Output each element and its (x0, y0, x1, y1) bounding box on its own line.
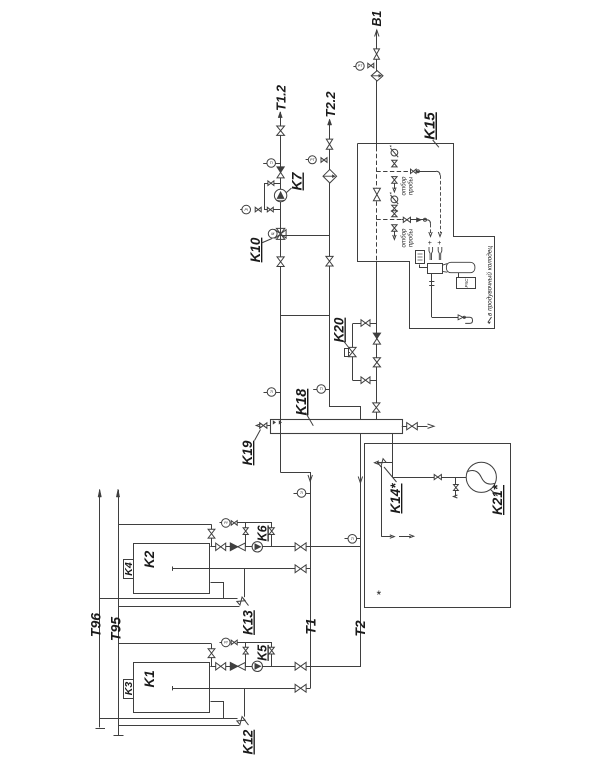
pipe K20 lower link (353, 380, 377, 382)
cooler feed 1 (440, 175, 442, 233)
cooler feed 2 (430, 224, 432, 233)
check valve B1 main (373, 333, 380, 339)
PI link (237, 642, 246, 644)
svg-text:K12: K12 (241, 729, 256, 754)
check valve above K7 (277, 167, 284, 173)
valve riser2 (326, 256, 333, 266)
enclosure hot water (365, 444, 511, 608)
flask bottle (446, 262, 475, 272)
mini valve PI (255, 207, 261, 212)
sampling branch 2 (376, 219, 401, 221)
safety valve K19 (267, 425, 270, 427)
pipe riser1 through manifold (280, 419, 282, 433)
mini valve sensor T2.2 (321, 158, 327, 163)
pipe make-up from T95 (118, 643, 212, 645)
collector outlet (402, 426, 428, 428)
valve B1 in K15 (373, 188, 380, 201)
PI mini valve (231, 521, 237, 526)
valve supply 2 (295, 543, 306, 551)
pipe T1 main (281, 473, 311, 689)
weld marks (273, 420, 276, 424)
thermometer TI above K7 (267, 159, 276, 168)
svg-text:пробы: пробы (408, 228, 415, 247)
svg-text:K14*: K14* (388, 483, 403, 514)
pump K5 (252, 661, 262, 671)
koloddec leader (488, 317, 492, 323)
flow orifice B1 (371, 71, 383, 81)
flow arrow T2 (358, 477, 362, 484)
РпС link (458, 273, 460, 278)
flow arrow T1 (308, 475, 312, 482)
sample1 spout (394, 183, 396, 189)
svg-text:TI: TI (320, 387, 323, 391)
drain spout K14 (381, 466, 383, 537)
control valve K20 (349, 347, 356, 356)
svg-text:T1.2: T1.2 (274, 84, 289, 111)
sensor tail (306, 159, 309, 161)
valve branch2 (403, 217, 410, 222)
valve sample2 mid (392, 211, 397, 217)
mini valve bypass bottom (267, 207, 273, 212)
svg-text:PI: PI (244, 208, 247, 212)
pipe supply K2 (210, 546, 360, 548)
drain branch (244, 688, 246, 716)
svg-text:PI: PI (224, 641, 227, 645)
pipe supply K1 (210, 666, 360, 668)
enclosure K15 (358, 144, 495, 329)
svg-text:M: M (271, 232, 274, 236)
mini valve sensor B1 (368, 63, 374, 68)
leader K20 (344, 341, 350, 349)
leader K12 (244, 719, 249, 726)
collector K18 (271, 420, 403, 434)
check valve supply (230, 543, 238, 551)
control unit link (420, 265, 428, 268)
cross link upper (281, 235, 330, 237)
sample point symbol 2 (391, 196, 398, 203)
svg-text:K20: K20 (332, 317, 347, 342)
svg-text:T2: T2 (352, 620, 368, 637)
valve bypass left (243, 528, 248, 535)
pipe K20 bypass (352, 324, 354, 381)
leader K7 (287, 188, 292, 193)
sensor tail (353, 66, 355, 68)
PI tail (220, 522, 222, 524)
svg-text:TI: TI (270, 390, 273, 394)
valve sample2 lower (392, 225, 397, 232)
svg-text:T95: T95 (108, 617, 124, 641)
valve K20 lower (361, 377, 370, 384)
svg-text:K19: K19 (240, 440, 255, 465)
handle branch1 (417, 170, 420, 173)
PI tail (240, 209, 242, 211)
valve bypass right (269, 647, 274, 654)
PI mini valve (231, 640, 237, 645)
svg-text:PT: PT (310, 158, 315, 162)
valve B1 main low (373, 403, 380, 412)
svg-text:K6: K6 (256, 524, 270, 541)
svg-text:K1: K1 (142, 670, 157, 687)
svg-text:отбор: отбор (401, 228, 408, 248)
boiler drain step (211, 583, 224, 599)
svg-text:K21*: K21* (490, 484, 505, 515)
svg-text:в продувочный колодец: в продувочный колодец (486, 246, 494, 316)
casing label box K3 (124, 680, 134, 699)
pipe T96 riser (96, 489, 106, 729)
valve bypass right (269, 528, 274, 535)
pump K7 bypass (265, 184, 281, 210)
svg-text:K3: K3 (123, 682, 135, 696)
arrow T1.2 (278, 112, 282, 118)
pipe return K1 (172, 688, 310, 690)
vent stub (211, 524, 213, 546)
control unit box (416, 251, 425, 264)
valve supply 1 (216, 663, 226, 670)
sensor at B1 (356, 62, 364, 70)
pipe sampling K14 (392, 443, 394, 477)
pipe riser inside manifold (280, 419, 282, 472)
pipe K20 upper link (353, 323, 377, 325)
valve return (295, 565, 306, 573)
svg-text:K15: K15 (422, 112, 439, 140)
valve K10 three-way (275, 230, 286, 238)
svg-text:K18: K18 (294, 388, 310, 416)
valve sample1 lower (392, 177, 397, 184)
valve on K21 line (434, 475, 441, 480)
pump K21 (466, 462, 496, 492)
svg-text:РпС: РпС (464, 278, 469, 288)
svg-text:K13: K13 (241, 610, 256, 635)
sample cooler flask neck (442, 264, 447, 273)
check valve supply (230, 662, 238, 670)
pipe to K21 (393, 477, 466, 479)
cross link lower (281, 315, 330, 317)
valve K20 upper (361, 320, 370, 327)
pump bypass (246, 643, 272, 667)
pipe riser to T1.2 (280, 112, 282, 419)
svg-text:K7: K7 (289, 171, 305, 190)
flow orifice riser2 (323, 169, 337, 183)
svg-text:K2: K2 (142, 550, 157, 568)
svg-text:B1: B1 (370, 10, 384, 26)
svg-text:PT: PT (358, 64, 363, 68)
arrow B1 (375, 30, 379, 37)
svg-text:+: + (437, 240, 441, 247)
mini valve bypass top (268, 181, 274, 186)
valve B1 main mid (373, 358, 380, 367)
svg-text:TI: TI (270, 161, 273, 165)
valve supply 2 (295, 662, 306, 670)
svg-text:TI: TI (351, 537, 354, 541)
leader K19 (255, 430, 261, 441)
leader K10 (262, 239, 273, 244)
pump bypass (246, 523, 272, 547)
valve return (295, 684, 306, 692)
svg-text:K4: K4 (123, 562, 135, 576)
thermometer TI riser1 (267, 388, 276, 397)
pipe return K2 (172, 568, 310, 570)
drain hook (465, 317, 472, 323)
svg-text:T1: T1 (303, 618, 319, 635)
boiler K2 (134, 544, 210, 594)
svg-text:отбор: отбор (401, 176, 408, 196)
pipe B1 dashed in K15 (376, 147, 378, 262)
valve supply 1 (216, 543, 226, 550)
pipe drain from T95 (118, 725, 240, 727)
thermometer TI riser2 (317, 385, 326, 394)
leader K18 (306, 413, 314, 426)
pipe drain from T96 (100, 598, 238, 600)
drain branch (244, 569, 246, 597)
valve sample1 upper (392, 160, 397, 167)
handle branch2 (424, 218, 427, 221)
svg-text:*: * (376, 588, 381, 602)
PI tail (220, 642, 222, 644)
svg-text:T96: T96 (88, 613, 104, 637)
sample point symbol 1 (391, 149, 398, 156)
gauge PI (222, 638, 231, 647)
svg-text:+: + (428, 240, 432, 247)
vent stub (211, 644, 213, 666)
pump K7 (274, 189, 286, 201)
gauge PI (222, 519, 231, 528)
valve vent K1 (208, 649, 215, 658)
svg-text:K10: K10 (248, 237, 263, 262)
svg-text:TI: TI (300, 491, 303, 495)
gauge PI at K7 (242, 205, 251, 214)
leader K21 (491, 490, 498, 497)
boiler K1 (134, 663, 210, 713)
leader K15 (433, 140, 439, 147)
casing label box K4 (124, 560, 134, 579)
valve T2.2 (326, 139, 332, 149)
leader K13 (244, 599, 249, 606)
valve bypass left (243, 647, 248, 654)
thermometer TI on T2 (348, 535, 357, 544)
drain run (432, 317, 466, 319)
valve K14 sampling (377, 462, 393, 464)
valve B1 (374, 49, 380, 59)
РпС box (457, 278, 476, 289)
valve T1.2 (277, 126, 285, 135)
pipe T95 riser (114, 489, 124, 736)
pipe make-up from T95 (118, 524, 212, 526)
check branch2 (416, 217, 422, 222)
svg-text:пробы: пробы (408, 176, 415, 195)
thermometer TI on T1 (297, 489, 306, 498)
pipe B1 K20 section (376, 262, 378, 420)
valve K13 (237, 597, 245, 605)
svg-text:T2.2: T2.2 (323, 91, 338, 118)
pump K6 (252, 542, 262, 552)
svg-text:PI: PI (224, 521, 227, 525)
pipe T2 main (311, 434, 361, 667)
pressure sensor T2.2 (308, 156, 316, 164)
motor of K10 (268, 229, 277, 238)
pipe riser to T2.2 (330, 120, 361, 420)
pipe drain from T96 (100, 718, 238, 720)
leader K14 (384, 467, 397, 482)
pipe to degasser (392, 433, 394, 443)
valve K12 (237, 717, 245, 725)
sample cooler body (428, 264, 443, 274)
boiler drain step (211, 702, 224, 719)
pipe B1 (376, 30, 378, 147)
PI link (237, 522, 246, 524)
pipe drain from T95 (118, 606, 240, 608)
valve riser1 (277, 257, 284, 267)
cooler drain (431, 273, 433, 317)
sample2 spout (394, 231, 396, 236)
valve sample2 upper (392, 205, 397, 211)
valve vent K2 (208, 529, 215, 538)
svg-text:K5: K5 (256, 644, 270, 661)
valve branch1 (411, 169, 417, 173)
sampling branch 1 (376, 171, 410, 173)
arrow T2.2 (328, 119, 332, 125)
drain stub near K21 (455, 477, 457, 496)
drain check (458, 315, 463, 320)
